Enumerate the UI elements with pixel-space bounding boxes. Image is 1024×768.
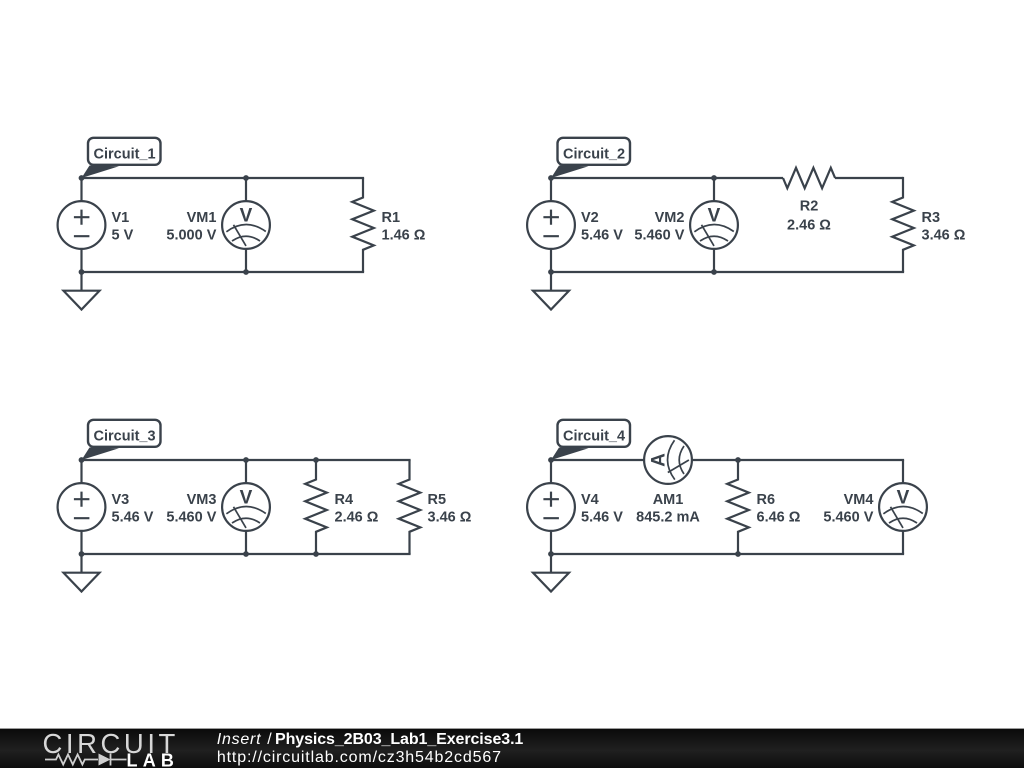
svg-text:VM3: VM3 bbox=[187, 492, 217, 508]
voltage source V4 bbox=[527, 483, 575, 531]
node balloon Circuit_1 bbox=[82, 138, 161, 178]
value label R3 3.46 ohm bbox=[922, 210, 966, 244]
svg-text:2.46 Ω: 2.46 Ω bbox=[335, 510, 379, 526]
junction node circuit 3 top VM3 bbox=[243, 457, 249, 463]
value label V3 5.46 V bbox=[112, 492, 154, 526]
svg-text:5 V: 5 V bbox=[112, 228, 134, 244]
junction node circuit 2 top VM2 bbox=[711, 175, 717, 181]
ground circuit 2 bbox=[533, 272, 569, 310]
voltmeter VM2 bbox=[690, 201, 738, 249]
value label VM1 5.000 V bbox=[166, 210, 216, 244]
ground circuit 1 bbox=[64, 272, 100, 310]
wire V1 top lead bbox=[80, 178, 82, 202]
svg-text:R1: R1 bbox=[382, 210, 401, 226]
svg-text:5.000 V: 5.000 V bbox=[166, 228, 216, 244]
wire bottom rail circuit 2 bbox=[551, 271, 904, 273]
svg-text:6.46 Ω: 6.46 Ω bbox=[757, 510, 801, 526]
ground circuit 4 bbox=[533, 554, 569, 592]
junction node circuit 4 top R6 bbox=[735, 457, 741, 463]
wire V2 top lead bbox=[550, 178, 552, 202]
value label R5 3.46 ohm bbox=[428, 492, 472, 526]
value label VM3 5.460 V bbox=[166, 492, 216, 526]
svg-text:R4: R4 bbox=[335, 492, 354, 508]
voltage source V1 bbox=[58, 201, 106, 249]
junction node circuit 1 bottom VM1 bbox=[243, 269, 249, 275]
wire V2 bottom lead bbox=[550, 249, 552, 273]
svg-text:Physics_2B03_Lab1_Exercise3.1: Physics_2B03_Lab1_Exercise3.1 bbox=[275, 731, 523, 748]
svg-text:AM1: AM1 bbox=[653, 492, 684, 508]
logo resistor-diode glyph bbox=[45, 754, 127, 766]
wire VM2 top lead bbox=[713, 178, 715, 202]
junction node circuit 3 top-left bbox=[79, 457, 85, 463]
node balloon Circuit_2 bbox=[551, 138, 630, 178]
junction node circuit 3 top R4 bbox=[313, 457, 319, 463]
svg-text:V3: V3 bbox=[112, 492, 130, 508]
junction node circuit 4 bottom R6 bbox=[735, 551, 741, 557]
wire top rail left segment circuit 4 bbox=[551, 459, 644, 461]
resistor R6 bbox=[727, 460, 749, 554]
svg-text:VM4: VM4 bbox=[844, 492, 874, 508]
svg-text:Circuit_1: Circuit_1 bbox=[94, 146, 156, 162]
resistor R3 bbox=[892, 178, 914, 272]
svg-text:Circuit_3: Circuit_3 bbox=[94, 428, 156, 444]
value label R6 6.46 ohm bbox=[757, 492, 801, 526]
junction node circuit 1 bottom-left bbox=[79, 269, 85, 275]
junction node circuit 3 bottom-left bbox=[79, 551, 85, 557]
resistor R2 bbox=[783, 168, 835, 188]
svg-text:5.46 V: 5.46 V bbox=[112, 510, 154, 526]
value label R1 1.46 ohm bbox=[382, 210, 426, 244]
wire V4 bottom lead bbox=[550, 531, 552, 555]
value label VM2 5.460 V bbox=[634, 210, 684, 244]
junction node circuit 2 top-left bbox=[548, 175, 554, 181]
svg-text:5.46 V: 5.46 V bbox=[581, 510, 623, 526]
svg-text:3.46 Ω: 3.46 Ω bbox=[922, 228, 966, 244]
svg-text:Circuit_4: Circuit_4 bbox=[563, 428, 625, 444]
wire top rail circuit 3 bbox=[82, 459, 411, 461]
value label V2 5.46 V bbox=[581, 210, 623, 244]
voltage source V2 bbox=[527, 201, 575, 249]
svg-text:2.46 Ω: 2.46 Ω bbox=[787, 218, 831, 234]
svg-text:5.460 V: 5.460 V bbox=[166, 510, 216, 526]
resistor R4 bbox=[305, 460, 327, 554]
wire V4 top lead bbox=[550, 460, 552, 484]
logo diode triangle bbox=[99, 754, 111, 766]
svg-text:1.46 Ω: 1.46 Ω bbox=[382, 228, 426, 244]
value label R4 2.46 ohm bbox=[335, 492, 379, 526]
junction node circuit 4 bottom-left bbox=[548, 551, 554, 557]
junction node circuit 2 bottom-left bbox=[548, 269, 554, 275]
wire V3 bottom lead bbox=[80, 531, 82, 555]
wire VM1 bottom lead bbox=[245, 249, 247, 273]
wire top rail circuit 1 bbox=[82, 177, 365, 179]
svg-text:V4: V4 bbox=[581, 492, 599, 508]
wire top rail left segment circuit 2 bbox=[551, 177, 783, 179]
svg-text:V1: V1 bbox=[112, 210, 130, 226]
node balloon Circuit_4 bbox=[551, 420, 630, 460]
svg-text:VM2: VM2 bbox=[655, 210, 685, 226]
svg-text:Insert: Insert bbox=[217, 731, 262, 748]
svg-text:R6: R6 bbox=[757, 492, 776, 508]
junction node circuit 3 bottom R4 bbox=[313, 551, 319, 557]
value label R2 2.46 ohm bbox=[787, 199, 831, 234]
wire V1 bottom lead bbox=[80, 249, 82, 273]
wire VM2 bottom lead bbox=[713, 249, 715, 273]
svg-text:845.2 mA: 845.2 mA bbox=[636, 510, 700, 526]
junction node circuit 2 bottom VM2 bbox=[711, 269, 717, 275]
wire V3 top lead bbox=[80, 460, 82, 484]
wire bottom rail circuit 3 bbox=[82, 553, 411, 555]
svg-text:R2: R2 bbox=[800, 199, 819, 215]
value label AM1 845.2 mA bbox=[636, 492, 700, 526]
voltmeter VM4 bbox=[879, 483, 927, 531]
junction node circuit 1 top-left bbox=[79, 175, 85, 181]
resistor R1 bbox=[352, 178, 374, 272]
svg-text:5.460 V: 5.460 V bbox=[634, 228, 684, 244]
svg-text:R5: R5 bbox=[428, 492, 447, 508]
svg-text:5.460 V: 5.460 V bbox=[823, 510, 873, 526]
value label VM4 5.460 V bbox=[823, 492, 873, 526]
svg-text:3.46 Ω: 3.46 Ω bbox=[428, 510, 472, 526]
ammeter AM1 bbox=[644, 436, 692, 484]
svg-text:VM1: VM1 bbox=[187, 210, 217, 226]
svg-text:LAB: LAB bbox=[127, 751, 180, 768]
node balloon Circuit_3 bbox=[82, 420, 161, 460]
resistor R5 bbox=[399, 460, 421, 554]
voltage source V3 bbox=[58, 483, 106, 531]
junction node circuit 4 top-left bbox=[548, 457, 554, 463]
wire right rail VM4 top lead bbox=[902, 460, 904, 484]
wire VM3 bottom lead bbox=[245, 531, 247, 555]
voltmeter VM1 bbox=[222, 201, 270, 249]
ground circuit 3 bbox=[64, 554, 100, 592]
value label V4 5.46 V bbox=[581, 492, 623, 526]
svg-text:Circuit_2: Circuit_2 bbox=[563, 146, 625, 162]
value label V1 5 V bbox=[112, 210, 134, 244]
svg-text:R3: R3 bbox=[922, 210, 941, 226]
svg-text:5.46 V: 5.46 V bbox=[581, 228, 623, 244]
wire right rail top lead R3 bbox=[902, 177, 904, 178]
wire VM1 top lead bbox=[245, 178, 247, 202]
wire right rail VM4 bottom lead bbox=[902, 531, 904, 555]
svg-text:/: / bbox=[267, 731, 272, 748]
svg-text:http://circuitlab.com/cz3h54b2: http://circuitlab.com/cz3h54b2cd567 bbox=[217, 749, 502, 766]
wire VM3 top lead bbox=[245, 460, 247, 484]
wire bottom rail circuit 1 bbox=[82, 271, 365, 273]
voltmeter VM3 bbox=[222, 483, 270, 531]
wire top rail right segment circuit 2 bbox=[835, 177, 903, 179]
footer black bar bbox=[0, 729, 1024, 768]
svg-text:V2: V2 bbox=[581, 210, 599, 226]
junction node circuit 1 top VM1 bbox=[243, 175, 249, 181]
wire bottom rail circuit 4 bbox=[551, 553, 904, 555]
junction node circuit 3 bottom VM3 bbox=[243, 551, 249, 557]
wire top rail right segment circuit 4 bbox=[692, 459, 904, 461]
